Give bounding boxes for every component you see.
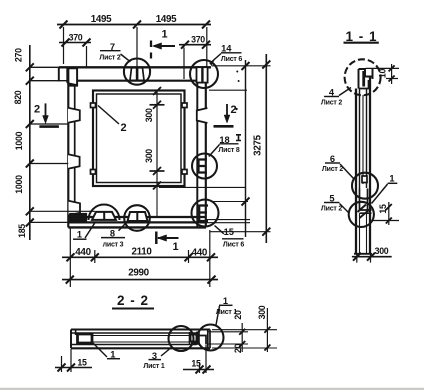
anchor trapezoid 2: [128, 212, 148, 221]
svg-text:20: 20: [233, 344, 243, 354]
bottom band top line: [68, 216, 206, 218]
E anchor in right bottom circle: [199, 205, 208, 223]
svg-text:лист 3: лист 3: [103, 241, 124, 248]
svg-text:820: 820: [13, 90, 23, 104]
svg-text:10: 10: [378, 69, 388, 79]
svg-text:1: 1: [77, 229, 82, 239]
svg-text:3275: 3275: [253, 134, 264, 155]
band inner line 1: [71, 332, 197, 334]
svg-text:1000: 1000: [14, 131, 24, 150]
extension line right tick: [206, 27, 208, 67]
top profile in section: [359, 69, 373, 89]
right inner dimension line: [245, 60, 247, 237]
callout 1 / Лист 1 top right 2-2: [216, 296, 237, 325]
extension line 1000 lower: [30, 163, 69, 165]
svg-text:Лист 2: Лист 2: [321, 206, 342, 213]
top dimension line 1495+1495: [57, 21, 211, 29]
svg-text:20: 20: [233, 310, 243, 320]
callout 1 left 2-2: [93, 343, 120, 360]
callout 1 bottom-left: [73, 222, 96, 240]
band inner line 3: [93, 341, 190, 343]
svg-text:15: 15: [378, 204, 388, 214]
dimension 370 right: [179, 34, 211, 48]
svg-text:Лист 6: Лист 6: [223, 241, 244, 248]
svg-text:370: 370: [69, 33, 83, 43]
callout 14 / Лист 6: [210, 44, 243, 66]
svg-text:370: 370: [191, 34, 205, 44]
callout 7 / Лист 2: [99, 42, 130, 62]
section mark 2 left: [34, 103, 59, 126]
right joint profile: [190, 332, 207, 345]
dimension 20/20 2-2: [233, 310, 245, 353]
callout 18 / Лист 8: [209, 135, 241, 157]
bottom band line upper-ext: [31, 210, 95, 212]
svg-text:185: 185: [17, 224, 27, 238]
corner block top-left: [67, 68, 77, 85]
left rib notch 2: [68, 154, 80, 169]
detail circle section top: [345, 59, 381, 95]
left rib inner edge: [74, 86, 76, 212]
left rib outer edge: [67, 67, 69, 227]
extension square top to right: [209, 89, 247, 91]
panel top edge inner line: [31, 80, 67, 82]
corner block bottom-left: [70, 214, 87, 222]
svg-text:1: 1: [172, 241, 178, 253]
section mark 1 top: [151, 29, 175, 59]
detail circle section middle: [352, 173, 378, 199]
opening square outer: [93, 91, 185, 187]
svg-text:300: 300: [375, 246, 389, 256]
dimension 370 left: [59, 33, 91, 47]
left chain ticks: [26, 63, 34, 226]
svg-text:8: 8: [110, 228, 115, 238]
band left end cap: [71, 330, 76, 349]
right rib notch: [197, 108, 208, 123]
callout 4 / Лист 2: [321, 88, 351, 107]
svg-text:300: 300: [144, 149, 154, 163]
right outer dimension line 3275: [265, 54, 267, 243]
detail circle top anchor left: [124, 59, 150, 85]
extension for 370 right: [183, 48, 185, 80]
left rib notch 3: [69, 201, 81, 216]
svg-text:1495: 1495: [156, 14, 177, 25]
anchor hook square left bottom: [91, 170, 96, 175]
extension for 370 left: [86, 46, 88, 68]
notch in middle circle: [362, 176, 367, 183]
semicircle detail bottom-left: [89, 205, 120, 221]
svg-text:300: 300: [144, 108, 154, 122]
bottom scan edge: [0, 388, 424, 390]
dimension 15 right 2-2: [183, 345, 214, 374]
svg-text:2110: 2110: [131, 247, 152, 258]
section body bottom cap: [354, 253, 372, 255]
panel top edge left cap: [58, 67, 60, 81]
callout 3 / Лист 1: [143, 347, 172, 371]
anchor in top-left circle: [130, 68, 144, 81]
panel top edge outer line: [31, 66, 59, 68]
right inner ticks: [242, 62, 250, 206]
small marks near right dim: [236, 71, 238, 73]
extension line 1000 upper: [30, 123, 69, 125]
section mark 1 bottom: [156, 232, 178, 254]
svg-text:440: 440: [192, 248, 208, 259]
extension mid right: [211, 201, 248, 203]
band right end cap: [208, 330, 210, 349]
svg-text:2990: 2990: [128, 267, 149, 278]
svg-text:1000: 1000: [14, 175, 24, 194]
svg-text:1: 1: [161, 29, 167, 41]
svg-text:1495: 1495: [91, 14, 112, 25]
svg-text:2: 2: [230, 104, 236, 116]
svg-text:1: 1: [223, 296, 228, 306]
left rib notch 1: [68, 108, 80, 123]
dimension 15 section: [372, 202, 400, 225]
extension bottom right: [210, 231, 271, 233]
svg-text:2: 2: [120, 122, 126, 134]
anchor hook square right bottom: [182, 170, 187, 175]
title 1-1: [344, 29, 379, 44]
left dimension chain line: [29, 45, 31, 240]
detail circle section bottom: [349, 202, 374, 227]
section mark 2 right: [214, 104, 237, 126]
bottom dimension line 440/2110/440: [62, 247, 218, 262]
svg-text:Лист 6: Лист 6: [221, 56, 242, 63]
svg-text:Лист 1: Лист 1: [143, 363, 164, 370]
anchor block in top-right circle: [197, 67, 208, 82]
svg-text:2 - 2: 2 - 2: [117, 293, 149, 308]
dimension 15 left 2-2: [55, 349, 92, 372]
svg-text:2: 2: [34, 104, 40, 116]
band top line: [71, 328, 210, 330]
groove left end: [78, 334, 93, 343]
dimension 300 2-2: [257, 305, 270, 352]
right rib inner edge: [196, 66, 198, 228]
anchor trapezoid 1: [92, 212, 116, 220]
right rib outer edge: [205, 66, 207, 228]
svg-text:Лист 2: Лист 2: [99, 55, 120, 62]
panel bottom edge: [68, 226, 206, 228]
bottom extension verticals: [69, 228, 71, 287]
detail circle 2-2 B: [198, 325, 224, 351]
opening slot in section: [360, 189, 372, 255]
extensions right 2-2: [212, 330, 277, 348]
bottom dimension line 2990: [62, 267, 218, 283]
dimension 300 section bottom: [352, 246, 392, 263]
svg-text:Лист 2: Лист 2: [321, 100, 342, 107]
opening square inner: [97, 94, 182, 183]
band inner line 4: [71, 344, 197, 346]
extension top right: [212, 65, 271, 67]
callout 5 / Лист 2: [321, 194, 349, 213]
svg-text:Лист 2: Лист 2: [322, 166, 343, 173]
detail circle right bottom: [192, 200, 219, 227]
E anchor in right middle circle: [199, 159, 208, 174]
svg-text:300: 300: [257, 305, 267, 319]
section body inner lines: [359, 89, 361, 189]
right outer ticks: [262, 61, 270, 236]
extension square bottom to right: [156, 186, 158, 217]
svg-text:Лист 8: Лист 8: [218, 147, 239, 154]
callout 6 / Лист 2: [322, 154, 354, 179]
detail circle top anchor right: [190, 60, 218, 88]
label 2 opening with leader: [98, 106, 127, 135]
dimension 10: [366, 64, 400, 84]
svg-text:15: 15: [77, 358, 87, 368]
detail circle bottom 2: [124, 205, 150, 231]
anchor hook square right top: [182, 103, 187, 108]
extension line left tick: [63, 27, 65, 64]
svg-text:270: 270: [14, 48, 24, 62]
callout 15 / Лист 6 bottom right: [215, 226, 245, 249]
svg-text:1: 1: [389, 174, 394, 184]
band inner line 2: [93, 335, 190, 337]
title 2-2: [112, 293, 154, 309]
callout 8 / лист 3: [101, 220, 129, 249]
detail circle 2-2 A: [169, 326, 194, 351]
hatch marks bottom circle: [358, 205, 370, 219]
callout 1 right: [372, 174, 398, 204]
anchor hook square left top: [91, 103, 96, 108]
extension line middle tick: [136, 27, 138, 68]
detail circle right middle: [192, 154, 217, 179]
svg-text:15: 15: [191, 359, 201, 369]
inner dimension 300/300: [144, 87, 165, 190]
band bottom line: [71, 347, 210, 349]
section body right outer: [369, 77, 371, 255]
section body left outer: [355, 89, 357, 255]
svg-text:440: 440: [75, 247, 91, 258]
bottom band lower line with extensions: [31, 221, 69, 223]
